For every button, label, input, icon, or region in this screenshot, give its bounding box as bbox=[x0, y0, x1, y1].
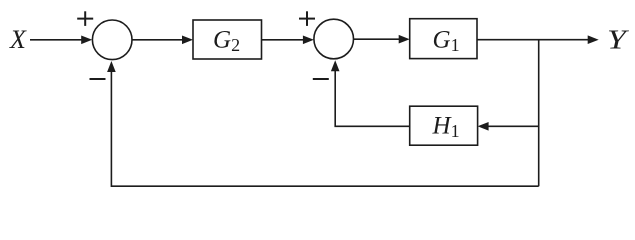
wire X to summing junction S1 bbox=[30, 36, 92, 45]
block H1 bbox=[410, 106, 478, 145]
wire G2 to summing junction S2 bbox=[262, 36, 314, 45]
wire S1 to block G2 bbox=[132, 36, 193, 45]
block G2 bbox=[193, 20, 262, 59]
outer feedback wire bbox=[107, 61, 539, 186]
svg-text:Y: Y bbox=[607, 25, 630, 55]
wire branch to H1 input bbox=[478, 122, 539, 131]
summing junction S1 bbox=[92, 20, 132, 60]
minus sign at S2 bbox=[313, 78, 329, 80]
wire S2 to block G1 bbox=[354, 35, 410, 44]
wire H1 output to S2 bbox=[331, 60, 410, 126]
minus sign at S1 bbox=[90, 78, 106, 80]
plus sign at S1 bbox=[77, 11, 93, 26]
plus sign at S2 bbox=[299, 11, 315, 26]
wire G1 to output Y bbox=[477, 35, 599, 44]
svg-text:H1: H1 bbox=[432, 113, 460, 142]
summing junction S2 bbox=[314, 19, 354, 59]
block G1 bbox=[410, 19, 477, 59]
node branch point bbox=[538, 40, 540, 187]
svg-text:X: X bbox=[9, 25, 27, 54]
svg-text:G1: G1 bbox=[433, 27, 460, 56]
svg-text:G2: G2 bbox=[213, 27, 240, 56]
